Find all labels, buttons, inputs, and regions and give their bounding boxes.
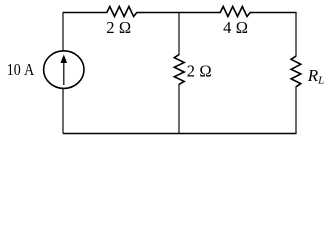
svg-text:10 A: 10 A bbox=[7, 60, 35, 79]
svg-text:2 Ω: 2 Ω bbox=[187, 62, 212, 81]
svg-text:2 Ω: 2 Ω bbox=[106, 18, 131, 37]
svg-text:RL: RL bbox=[307, 66, 325, 86]
svg-text:4 Ω: 4 Ω bbox=[223, 18, 248, 37]
